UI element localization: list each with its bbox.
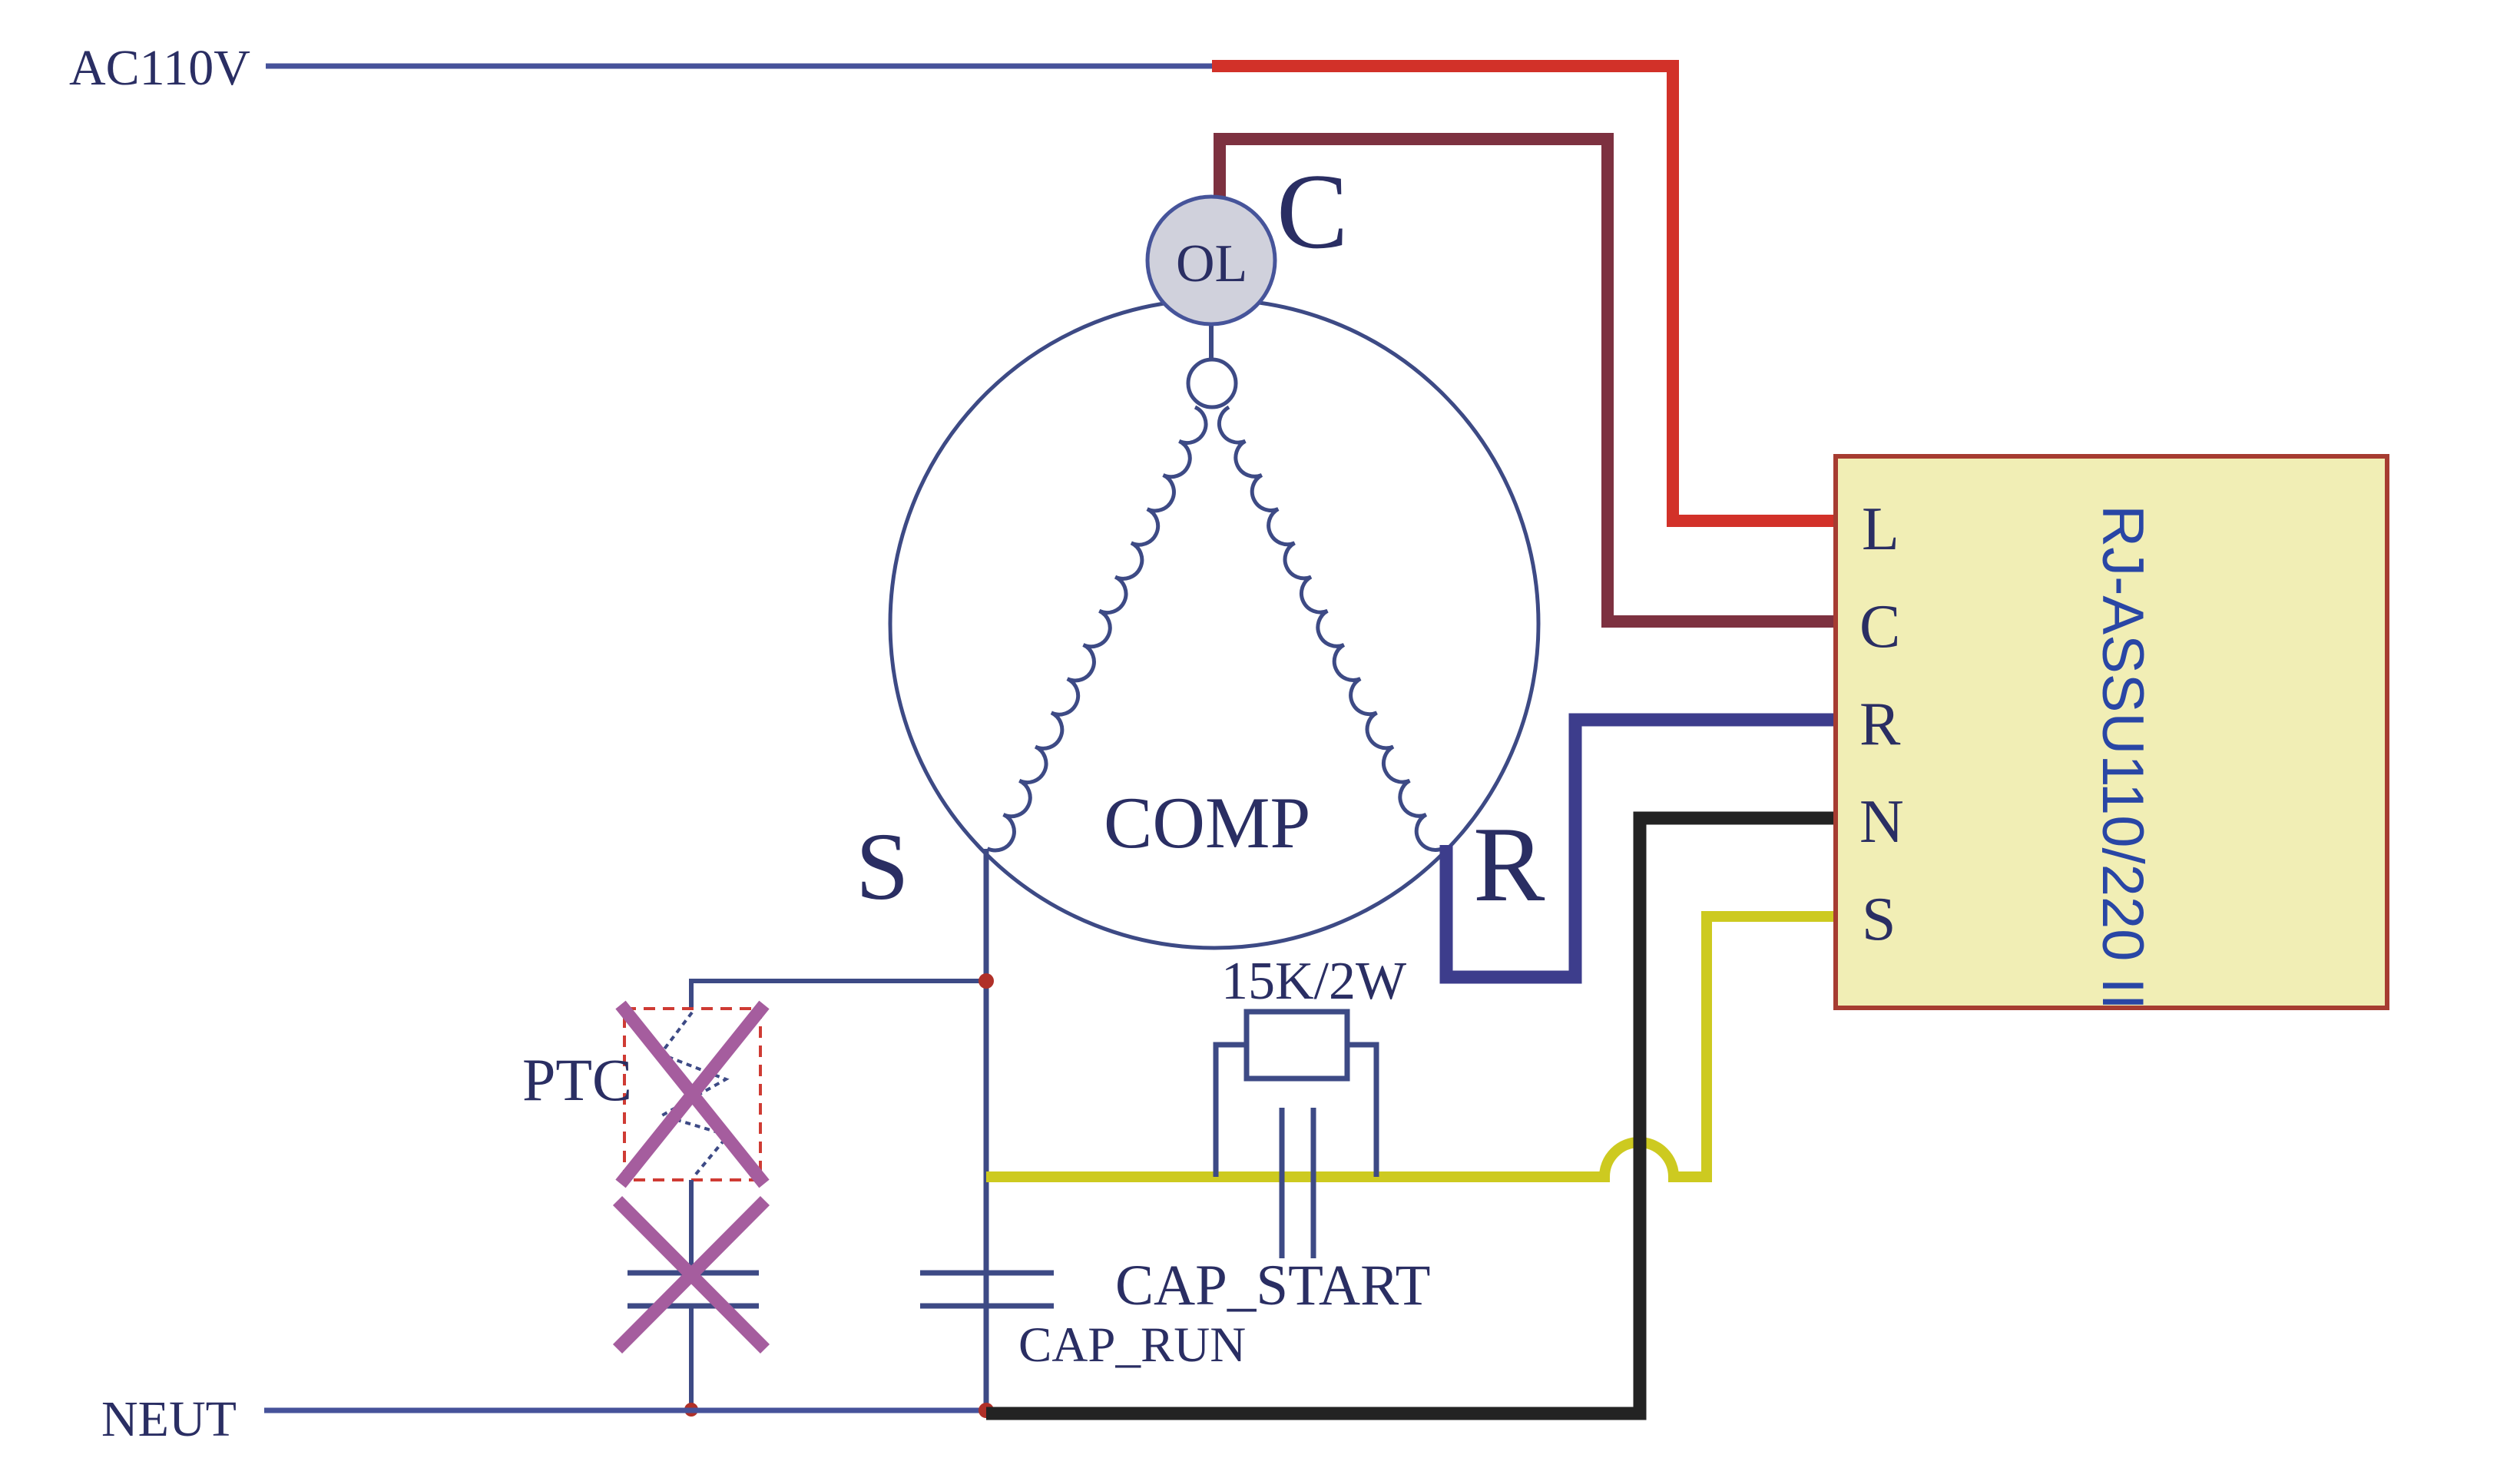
overload OL circle [1147,197,1275,324]
wire C (maroon) from OL to box terminal C [1220,139,1842,621]
X cross over PTC [621,1005,764,1184]
winding R (right scalloped coil) [1219,407,1442,850]
winding common link wire [1209,323,1214,360]
svg-text:CAP_RUN: CAP_RUN [1018,1317,1246,1373]
wire AC110V line [266,64,1215,69]
compressor shell circle [890,300,1538,948]
wire R (navy) [1446,720,1842,977]
svg-text:C: C [1859,593,1900,661]
X cross over crossed capacitor [618,1201,765,1349]
wire crossed capacitor to NEUT [689,1306,694,1412]
svg-text:NEUT: NEUT [101,1391,237,1447]
svg-text:N: N [1859,788,1904,856]
crossed capacitor plates [628,1271,759,1276]
wire N (black) [986,818,1842,1413]
svg-text:15K/2W: 15K/2W [1221,952,1406,1011]
junction dot at S branch [979,973,994,989]
wire junction to PTC branch [691,981,986,1009]
svg-text:S: S [856,814,909,920]
svg-text:L: L [1862,495,1899,563]
svg-text:CAP_START: CAP_START [1115,1254,1430,1317]
svg-text:S: S [1862,886,1896,953]
svg-text:AC110V: AC110V [69,40,250,96]
resistor parallel bracket wires [1216,1045,1376,1177]
wire S (yellow) with hop over N wire [986,916,1842,1177]
svg-text:PTC: PTC [522,1046,632,1113]
wire from winding S down to NEUT [984,849,989,1412]
controller box RJ-ASSU110/220 II [1836,456,2387,1008]
junction dot on NEUT at PTC branch [684,1403,698,1417]
svg-text:R: R [1859,691,1901,758]
PTC zigzag element [661,1012,728,1177]
svg-text:C: C [1277,152,1348,271]
wire L (red) from AC110V to box terminal L [1212,66,1842,521]
junction dot on NEUT at S branch [979,1403,994,1418]
svg-text:R: R [1473,805,1545,924]
run capacitor CAP_RUN plates [920,1271,1054,1276]
start capacitor CAP_START plates [1280,1108,1285,1258]
resistor 15K/2W body [1247,1012,1347,1079]
wire NEUT line [264,1408,986,1413]
svg-text:COMP: COMP [1104,782,1310,863]
svg-text:OL: OL [1176,234,1247,293]
winding S (left scalloped coil) [988,407,1206,850]
winding top loop [1188,360,1236,407]
wire PTC to crossed capacitor [689,1180,694,1273]
svg-text:RJ-ASSU110/220 II: RJ-ASSU110/220 II [2090,505,2155,1010]
PTC dashed box [624,1009,760,1180]
